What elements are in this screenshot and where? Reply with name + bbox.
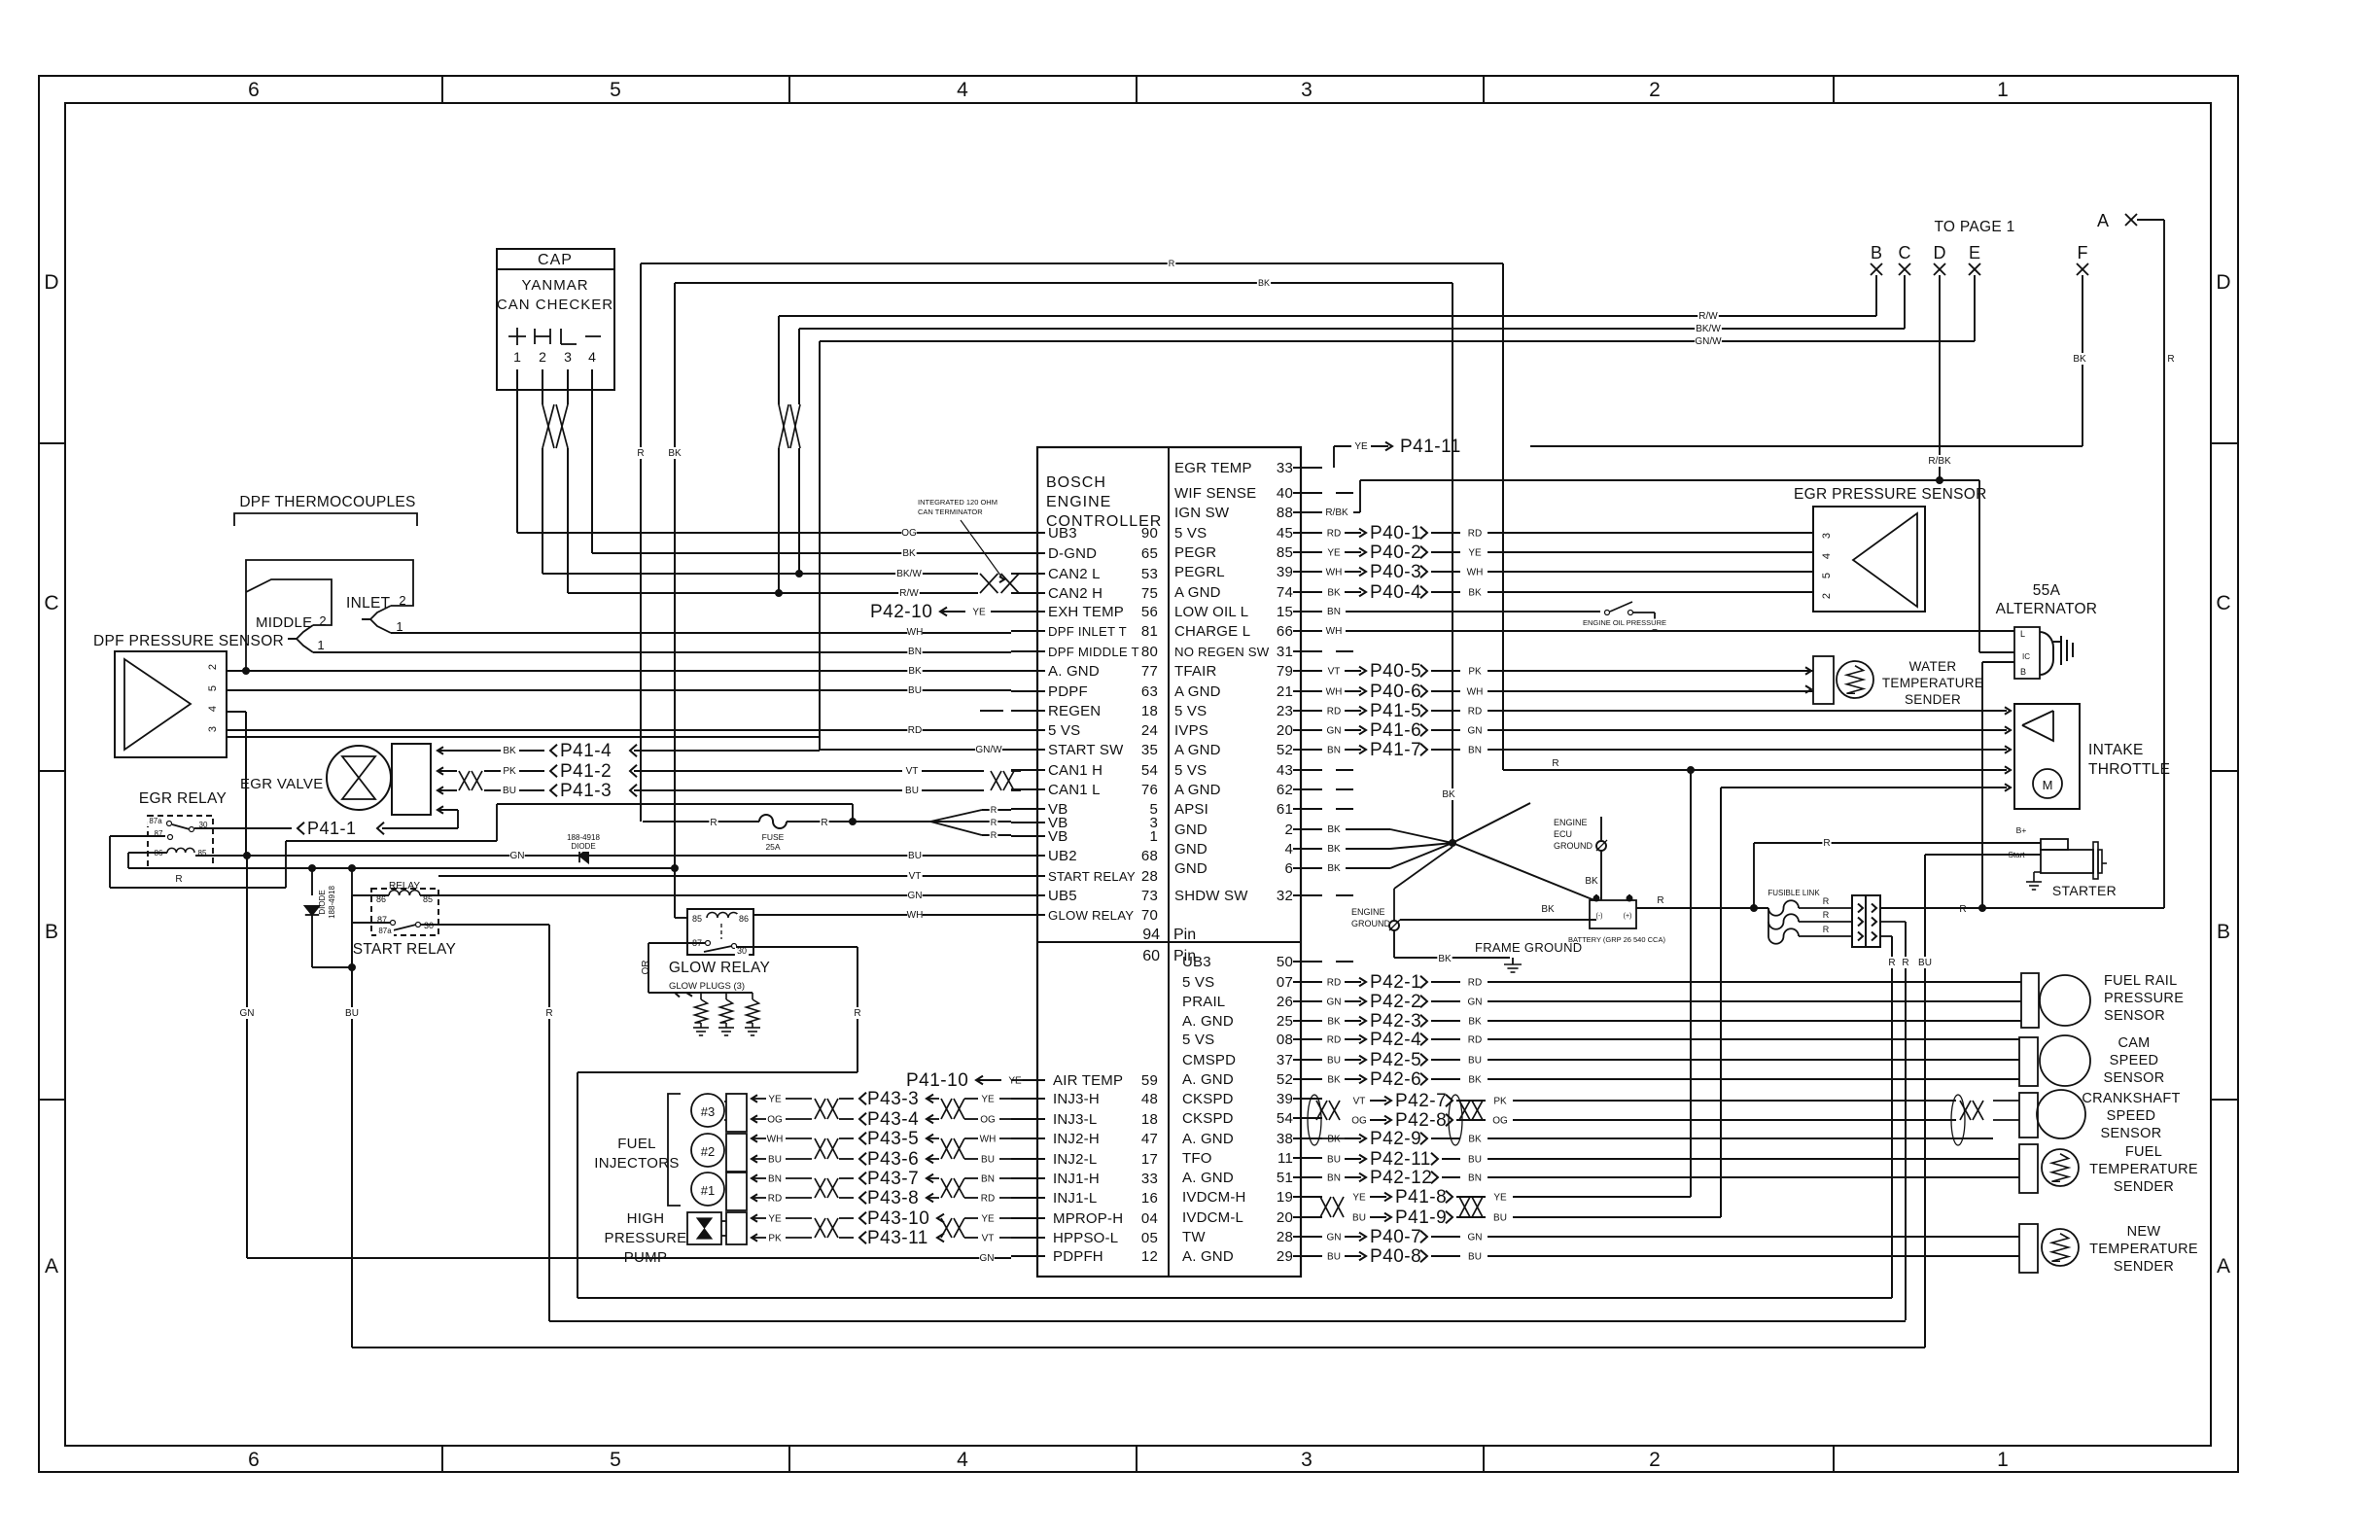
svg-text:WH: WH <box>1467 687 1484 698</box>
wire pump P43-11 <box>752 1228 1011 1248</box>
svg-text:18: 18 <box>1141 703 1158 719</box>
svg-text:08: 08 <box>1277 1032 1293 1048</box>
svg-text:04: 04 <box>1141 1210 1158 1227</box>
svg-text:GLOW RELAY: GLOW RELAY <box>669 960 770 976</box>
ECU 60-pin right column pin labels <box>1182 954 1322 1265</box>
svg-text:GND: GND <box>1174 860 1207 877</box>
wire P41-9 IVDCM-L <box>1351 1207 1721 1228</box>
svg-text:1: 1 <box>317 638 324 652</box>
svg-text:PK: PK <box>503 766 516 777</box>
wire P42-7 to crankshaft sensor <box>1351 1091 1956 1111</box>
wire P42-4 to cam speed sensor <box>1326 1030 2019 1050</box>
wire P41-7 to intake throttle <box>1326 740 2011 760</box>
svg-text:REGEN: REGEN <box>1048 703 1101 719</box>
svg-text:P41-7: P41-7 <box>1370 740 1421 760</box>
svg-text:VT: VT <box>982 1234 995 1244</box>
svg-text:P40-3: P40-3 <box>1370 562 1421 582</box>
svg-text:P42-12: P42-12 <box>1370 1168 1432 1188</box>
thermocouple MIDDLE connector <box>246 579 1011 652</box>
svg-text:INJ2-H: INJ2-H <box>1053 1131 1100 1147</box>
svg-text:B: B <box>1871 243 1882 262</box>
svg-text:4: 4 <box>957 79 968 101</box>
wire P41-6 to intake throttle <box>1326 720 2011 741</box>
svg-text:BK: BK <box>1327 1017 1341 1028</box>
svg-text:GLOW PLUGS (3): GLOW PLUGS (3) <box>669 981 745 992</box>
svg-text:5: 5 <box>610 79 621 101</box>
wire P42-5 <box>1326 1050 2019 1070</box>
svg-text:ECU: ECU <box>1554 829 1572 839</box>
svg-text:START RELAY: START RELAY <box>1048 869 1136 884</box>
svg-text:R: R <box>991 818 997 827</box>
wire pump P43-10 <box>752 1208 1011 1229</box>
svg-text:YE: YE <box>768 1095 782 1105</box>
svg-text:30: 30 <box>424 921 434 930</box>
svg-text:START RELAY: START RELAY <box>353 941 456 958</box>
svg-text:SENSOR: SENSOR <box>2103 1070 2164 1086</box>
svg-text:P40-7: P40-7 <box>1370 1227 1421 1247</box>
svg-text:R: R <box>1552 758 1558 769</box>
wire page1 E drop <box>1974 275 1976 341</box>
svg-text:M: M <box>2043 778 2053 792</box>
fuel temperature sender <box>2019 1144 2198 1195</box>
svg-text:5 VS: 5 VS <box>1174 703 1207 719</box>
svg-text:A: A <box>2097 211 2109 230</box>
svg-text:THROTTLE: THROTTLE <box>2088 761 2170 778</box>
svg-text:5: 5 <box>610 1449 621 1471</box>
svg-text:2: 2 <box>1821 593 1833 599</box>
svg-text:2: 2 <box>207 664 219 670</box>
svg-text:BU: BU <box>1352 1213 1366 1224</box>
svg-text:25A: 25A <box>765 842 780 852</box>
svg-text:4: 4 <box>207 706 219 712</box>
svg-text:R: R <box>854 1008 860 1019</box>
svg-text:INJ1-L: INJ1-L <box>1053 1190 1097 1207</box>
wire page1 C drop <box>1904 275 1906 329</box>
svg-text:BN: BN <box>1327 1173 1341 1184</box>
svg-text:ENGINE: ENGINE <box>1351 907 1385 917</box>
wire glow relay 30 R loop around injectors <box>577 947 862 1298</box>
svg-text:P43-11: P43-11 <box>867 1228 928 1248</box>
wire bottom BU <box>352 1347 1925 1348</box>
svg-text:73: 73 <box>1141 888 1158 904</box>
svg-text:BN: BN <box>1327 607 1341 617</box>
svg-text:YE: YE <box>981 1214 995 1225</box>
ECU 94-pin left column pin labels <box>1011 525 1158 924</box>
svg-text:BK: BK <box>1541 904 1555 915</box>
wire BK engine ground to battery <box>1400 903 1596 920</box>
wire DPF pin4 jog down <box>227 712 246 856</box>
svg-text:R: R <box>1657 895 1663 906</box>
svg-text:INJ3-H: INJ3-H <box>1053 1091 1100 1107</box>
svg-text:B: B <box>45 921 58 943</box>
svg-text:P40-8: P40-8 <box>1370 1246 1421 1267</box>
svg-text:WH: WH <box>1326 568 1343 578</box>
svg-text:PDPFH: PDPFH <box>1053 1248 1103 1265</box>
svg-text:BN: BN <box>981 1174 995 1185</box>
wire battery plus R bus <box>1636 894 1768 908</box>
svg-text:66: 66 <box>1277 623 1293 640</box>
svg-text:17: 17 <box>1141 1151 1158 1168</box>
svg-text:PEGR: PEGR <box>1174 544 1216 561</box>
svg-text:BN: BN <box>1468 1173 1482 1184</box>
svg-text:OG: OG <box>1492 1116 1508 1127</box>
wire EGR relay 30 to P41-1 <box>194 819 458 838</box>
svg-text:5 VS: 5 VS <box>1182 1032 1214 1048</box>
svg-text:BU: BU <box>981 1155 995 1166</box>
svg-text:188-4918: 188-4918 <box>567 833 600 842</box>
svg-text:R: R <box>821 818 827 828</box>
svg-text:74: 74 <box>1277 584 1293 601</box>
svg-text:WH: WH <box>1326 687 1343 698</box>
svg-text:EGR RELAY: EGR RELAY <box>139 790 227 807</box>
svg-text:P42-6: P42-6 <box>1370 1069 1421 1090</box>
svg-text:P43-5: P43-5 <box>867 1129 919 1149</box>
svg-text:29: 29 <box>1277 1248 1293 1265</box>
cam speed sensor <box>2019 1035 2165 1086</box>
wire R to intake throttle <box>1503 757 2011 774</box>
svg-text:P41-3: P41-3 <box>560 781 612 801</box>
svg-text:C: C <box>1899 243 1911 262</box>
wire alternator B down to starter B+ <box>1982 662 2014 843</box>
svg-text:NO REGEN SW: NO REGEN SW <box>1174 645 1270 659</box>
thermocouple INLET connector <box>246 560 1011 671</box>
svg-text:VT: VT <box>906 766 919 777</box>
svg-text:C: C <box>2216 592 2230 614</box>
svg-text:GN/W: GN/W <box>975 745 1002 755</box>
wire GN diode 188-4918 to ECU UB2 <box>195 833 1011 862</box>
svg-text:GN: GN <box>1468 997 1483 1008</box>
svg-text:1: 1 <box>1997 79 2009 101</box>
wire P42-6 <box>1326 1069 2019 1090</box>
EGR valve <box>240 744 431 815</box>
svg-text:FUEL: FUEL <box>617 1136 656 1152</box>
wire P40-2 <box>1326 542 1813 563</box>
wire P42-2 <box>1326 992 2021 1012</box>
wire page1 F drop BK <box>1530 275 2087 446</box>
wire P40-3 <box>1326 562 1813 582</box>
svg-text:(-): (-) <box>1596 913 1603 920</box>
wire R top bus to page-1 vertical <box>636 259 1503 822</box>
wire CAP pin2 R/W to ECU CAN2 H <box>568 448 1021 599</box>
svg-text:75: 75 <box>1141 585 1158 602</box>
svg-text:1: 1 <box>513 349 521 365</box>
svg-text:1: 1 <box>396 619 402 634</box>
wire injector1 P43-8 <box>752 1188 1011 1208</box>
wire ECU IGN SW R/BK to alternator IC <box>1323 480 2014 652</box>
svg-text:A: A <box>45 1255 58 1277</box>
svg-text:P41-5: P41-5 <box>1370 701 1421 721</box>
svg-text:IVDCM-L: IVDCM-L <box>1182 1209 1243 1226</box>
svg-text:YANMAR: YANMAR <box>521 277 588 294</box>
svg-text:52: 52 <box>1277 742 1293 758</box>
svg-text:WATER: WATER <box>1909 659 1957 674</box>
twisted pair EGR valve wires <box>459 771 470 790</box>
svg-text:3: 3 <box>1301 79 1312 101</box>
wire P40-7 to new temp sender <box>1326 1227 2019 1247</box>
svg-text:76: 76 <box>1141 782 1158 798</box>
svg-text:GN: GN <box>1468 1233 1483 1243</box>
svg-text:EGR VALVE: EGR VALVE <box>240 776 324 792</box>
svg-text:BK/W: BK/W <box>1696 324 1721 334</box>
svg-text:A. GND: A. GND <box>1182 1248 1234 1265</box>
svg-text:81: 81 <box>1141 623 1158 640</box>
svg-text:28: 28 <box>1277 1229 1293 1245</box>
svg-text:P42-10: P42-10 <box>870 602 932 622</box>
svg-text:16: 16 <box>1141 1190 1158 1207</box>
svg-text:P43-3: P43-3 <box>867 1089 919 1109</box>
svg-text:4: 4 <box>1821 553 1833 559</box>
twisted pair injector3 <box>815 1099 964 1119</box>
wire injector3 P43-3 <box>752 1089 1011 1109</box>
starter motor <box>2003 825 2117 898</box>
svg-text:YE: YE <box>768 1214 782 1225</box>
svg-text:TEMPERATURE: TEMPERATURE <box>1882 676 1983 690</box>
svg-text:D: D <box>2216 271 2230 294</box>
svg-text:BATTERY (GRP 26 540 CCA): BATTERY (GRP 26 540 CCA) <box>1568 935 1665 944</box>
svg-text:48: 48 <box>1141 1091 1158 1107</box>
svg-text:BK: BK <box>1327 844 1341 855</box>
svg-text:A: A <box>2217 1255 2230 1277</box>
wire P41-5 to intake throttle <box>1326 701 2011 721</box>
svg-text:BK: BK <box>1327 863 1341 874</box>
glow plugs resistors and grounds <box>693 993 760 1035</box>
svg-text:DIODE: DIODE <box>571 842 595 851</box>
svg-text:R: R <box>991 805 997 815</box>
svg-text:EGR PRESSURE SENSOR: EGR PRESSURE SENSOR <box>1794 486 1987 503</box>
wire P40-1 to EGR pressure sensor <box>1326 523 1813 543</box>
svg-text:YE: YE <box>1352 1193 1366 1204</box>
wire EGR relay 86 coil drop <box>128 853 167 868</box>
svg-text:39: 39 <box>1277 1091 1293 1107</box>
svg-text:STARTER: STARTER <box>2052 883 2117 898</box>
svg-text:START SW: START SW <box>1048 742 1124 758</box>
svg-text:P43-8: P43-8 <box>867 1188 919 1208</box>
svg-text:43: 43 <box>1277 762 1293 779</box>
svg-text:YE: YE <box>1354 441 1368 452</box>
wire glow relay 87 OR to glow plugs <box>641 943 752 997</box>
wire P42-11 to fuel temp sender <box>1326 1149 2019 1170</box>
svg-text:RD: RD <box>1327 707 1341 717</box>
DPF pressure sensor <box>93 633 284 757</box>
wire connector row2 R down <box>1880 922 1910 1320</box>
svg-text:A GND: A GND <box>1174 782 1221 798</box>
svg-text:54: 54 <box>1277 1110 1293 1127</box>
svg-text:47: 47 <box>1141 1131 1158 1147</box>
svg-text:32: 32 <box>1277 888 1293 904</box>
wire P42-8 <box>1351 1110 1956 1131</box>
svg-text:P41-8: P41-8 <box>1395 1187 1447 1207</box>
svg-text:4: 4 <box>1284 841 1293 857</box>
wire R/W to page1 B <box>779 310 1876 322</box>
svg-text:188-4918: 188-4918 <box>328 886 336 919</box>
svg-text:BK: BK <box>908 666 922 677</box>
svg-text:11: 11 <box>1277 1150 1293 1167</box>
wire bottom start relay R <box>549 1320 1906 1322</box>
svg-text:ENGINE: ENGINE <box>1046 494 1111 510</box>
svg-text:FUSE: FUSE <box>762 832 785 842</box>
svg-text:WH: WH <box>1467 568 1484 578</box>
EGR pressure sensor <box>1794 486 1987 612</box>
svg-text:GND: GND <box>1174 841 1207 857</box>
svg-text:P43-10: P43-10 <box>867 1208 929 1229</box>
svg-text:07: 07 <box>1277 974 1293 991</box>
svg-text:26: 26 <box>1277 994 1293 1010</box>
svg-text:BK: BK <box>1438 954 1452 964</box>
svg-text:BU: BU <box>908 851 922 861</box>
svg-text:DPF THERMOCOUPLES: DPF THERMOCOUPLES <box>239 494 415 510</box>
svg-text:RD: RD <box>1468 1035 1482 1046</box>
svg-text:ALTERNATOR: ALTERNATOR <box>1996 601 2098 617</box>
svg-text:INTAKE: INTAKE <box>2088 742 2144 758</box>
svg-text:R: R <box>1169 259 1175 268</box>
wire DPF pin5 to ECU PDPF 63 <box>227 684 1011 696</box>
twisted pair injector2 <box>815 1138 964 1159</box>
svg-text:BU: BU <box>1327 1056 1341 1067</box>
DPF thermocouples label and bracket <box>234 494 417 526</box>
svg-text:BOSCH: BOSCH <box>1046 474 1106 491</box>
svg-text:53: 53 <box>1141 566 1158 582</box>
svg-text:R/W: R/W <box>899 588 919 599</box>
svg-text:BU: BU <box>1493 1213 1507 1224</box>
svg-text:BN: BN <box>1327 746 1341 756</box>
svg-text:P42-9: P42-9 <box>1370 1129 1421 1149</box>
svg-text:IVPS: IVPS <box>1174 722 1208 739</box>
svg-text:BK: BK <box>902 548 916 559</box>
svg-text:TEMPERATURE: TEMPERATURE <box>2089 1242 2198 1257</box>
svg-text:94: 94 <box>1142 927 1160 943</box>
injector #3 <box>691 1094 747 1132</box>
svg-text:70: 70 <box>1141 907 1158 924</box>
svg-text:PUMP: PUMP <box>624 1249 668 1266</box>
svg-text:FUEL RAIL: FUEL RAIL <box>2104 973 2178 989</box>
svg-text:4: 4 <box>957 1449 968 1471</box>
svg-text:GN: GN <box>1468 726 1483 737</box>
svg-text:SENDER: SENDER <box>2114 1179 2174 1195</box>
svg-text:WH: WH <box>1326 626 1343 637</box>
svg-text:BK: BK <box>1468 1075 1482 1086</box>
svg-text:FUEL: FUEL <box>2125 1144 2162 1160</box>
svg-text:YE: YE <box>1327 548 1341 559</box>
svg-text:5 VS: 5 VS <box>1174 525 1207 542</box>
svg-text:P42-7: P42-7 <box>1395 1091 1447 1111</box>
svg-text:WH: WH <box>907 910 924 921</box>
svg-text:38: 38 <box>1277 1131 1293 1147</box>
twisted pair CAN1 wires <box>991 771 1001 790</box>
svg-text:BK/W: BK/W <box>896 569 922 579</box>
wire CHARGE L WH to alternator <box>1326 625 2014 637</box>
twisted pairs IVDCM wires <box>1320 1197 1483 1217</box>
svg-text:BU: BU <box>768 1155 782 1166</box>
wire P42-12 <box>1326 1168 2019 1188</box>
svg-text:PK: PK <box>1468 667 1482 678</box>
wire M to intake throttle <box>1721 784 2011 790</box>
svg-text:25: 25 <box>1277 1013 1293 1030</box>
svg-text:BK: BK <box>1442 789 1455 800</box>
svg-text:6: 6 <box>1284 860 1293 877</box>
svg-text:85: 85 <box>1277 544 1293 561</box>
svg-text:IGN SW: IGN SW <box>1174 505 1230 521</box>
svg-text:P40-2: P40-2 <box>1370 542 1421 563</box>
svg-text:P41-11: P41-11 <box>1400 437 1461 457</box>
wire P41-8 IVDCM-H <box>1351 1187 1691 1207</box>
svg-text:R: R <box>2167 354 2174 365</box>
wire DPF spare to GN/W bus <box>227 736 821 738</box>
svg-text:BN: BN <box>1468 746 1482 756</box>
connector CAP Yanmar CAN checker <box>497 249 614 390</box>
intake throttle <box>2014 704 2170 809</box>
twisted pair CAP pins 2-3 <box>542 369 568 448</box>
diode 188-4918 at start relay <box>305 868 356 971</box>
svg-text:5: 5 <box>1821 573 1833 578</box>
svg-text:VT: VT <box>909 871 922 882</box>
svg-text:OR: OR <box>641 961 651 975</box>
twisted pair vertical R/W BK/W <box>776 316 803 597</box>
fuse F1 25A <box>643 815 930 853</box>
svg-text:GROUND: GROUND <box>1554 841 1592 851</box>
svg-text:RD: RD <box>1468 978 1482 989</box>
svg-text:3: 3 <box>1301 1449 1312 1471</box>
wire page1 A drop R <box>2137 220 2176 908</box>
svg-text:P42-8: P42-8 <box>1395 1110 1447 1131</box>
connector 3-way <box>1852 895 1880 947</box>
svg-text:RD: RD <box>1468 707 1482 717</box>
svg-text:BU: BU <box>1468 1056 1482 1067</box>
wire DPF pin3 to ECU 5 VS 24 <box>227 724 1011 736</box>
wire injector2 P43-5 <box>752 1129 1011 1149</box>
svg-text:87a: 87a <box>378 927 392 935</box>
svg-text:86: 86 <box>739 914 749 924</box>
svg-text:SENDER: SENDER <box>2114 1259 2174 1275</box>
svg-text:SENSOR: SENSOR <box>2104 1008 2165 1024</box>
svg-text:SPEED: SPEED <box>2107 1108 2156 1124</box>
vertical bus to intake throttle R <box>1690 770 1692 1197</box>
svg-text:YE: YE <box>1493 1193 1507 1204</box>
svg-text:P42-2: P42-2 <box>1370 992 1421 1012</box>
wire VT to ECU START RELAY 28 <box>438 870 1011 882</box>
wire P40-8 <box>1326 1246 2019 1267</box>
svg-text:68: 68 <box>1141 848 1158 864</box>
svg-text:TW: TW <box>1182 1229 1206 1245</box>
wire LOW OIL L BN to oil pressure switch <box>1326 606 1600 617</box>
injector #2 <box>691 1134 747 1172</box>
svg-text:CAN TERMINATOR: CAN TERMINATOR <box>918 507 983 516</box>
svg-text:GN: GN <box>1327 1233 1342 1243</box>
svg-text:65: 65 <box>1141 545 1158 562</box>
svg-text:SHDW SW: SHDW SW <box>1174 888 1248 904</box>
wire P42-1 to fuel rail sensor <box>1326 972 2021 993</box>
svg-text:RD: RD <box>768 1194 782 1205</box>
svg-text:62: 62 <box>1277 782 1293 798</box>
svg-text:39: 39 <box>1277 564 1293 580</box>
crankshaft speed sensor <box>1993 1090 2181 1141</box>
svg-text:TFO: TFO <box>1182 1150 1212 1167</box>
svg-text:EXH TEMP: EXH TEMP <box>1048 604 1124 620</box>
wire fuse fan to VB pins <box>930 805 1011 841</box>
wire R bus to page1 A and starter <box>1880 907 2164 909</box>
svg-text:PK: PK <box>1493 1097 1507 1107</box>
wire start relay coil riser <box>351 868 353 895</box>
svg-text:BK: BK <box>1327 1135 1341 1145</box>
svg-text:SPEED: SPEED <box>2110 1053 2159 1068</box>
svg-text:77: 77 <box>1141 663 1158 680</box>
svg-text:R: R <box>545 1008 552 1019</box>
svg-text:BU: BU <box>908 685 922 696</box>
svg-text:5 VS: 5 VS <box>1048 722 1080 739</box>
svg-text:PRAIL: PRAIL <box>1182 994 1225 1010</box>
svg-text:A GND: A GND <box>1174 742 1221 758</box>
wire WH to DPF INLET <box>907 626 922 638</box>
svg-text:R: R <box>710 818 717 828</box>
